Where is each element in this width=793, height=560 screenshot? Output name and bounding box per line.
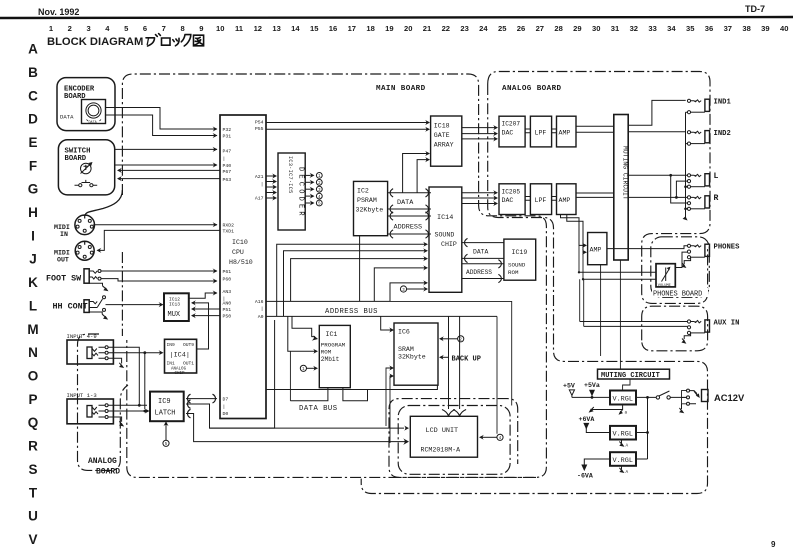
svg-text:IC18: IC18 bbox=[434, 123, 450, 130]
data bus IC9 to LCD rail bbox=[186, 409, 409, 445]
svg-text:|IC4|: |IC4| bbox=[170, 352, 190, 360]
wires AMP upper to muting bbox=[576, 126, 614, 132]
svg-text:P: P bbox=[28, 392, 37, 407]
wire MIDI IN to CPU RXD2 bbox=[93, 222, 217, 227]
mux IC12 IC13 bbox=[164, 293, 189, 321]
svg-text:S: S bbox=[28, 462, 37, 477]
wire data bus to IC18 a bbox=[403, 151, 430, 193]
svg-text:32Kbyte: 32Kbyte bbox=[398, 354, 426, 361]
svg-text:B: B bbox=[28, 65, 38, 80]
power switch bbox=[656, 391, 670, 399]
svg-text:8: 8 bbox=[180, 24, 184, 33]
rail1 extension to lcd bay bbox=[390, 301, 512, 405]
wire vrgl1 to power switch bbox=[636, 396, 656, 399]
circled 3 into IC14 bbox=[400, 286, 428, 293]
svg-text:|: | bbox=[261, 306, 264, 312]
HH CONT jack bbox=[53, 296, 106, 314]
svg-text:40: 40 bbox=[780, 24, 788, 33]
svg-text:DATA BUS: DATA BUS bbox=[299, 405, 338, 413]
address bus IC14-IC19 upper bbox=[462, 260, 504, 268]
header date bbox=[38, 7, 79, 17]
IC6 SRAM bbox=[394, 323, 438, 385]
address bus IC14-IC19 lower bbox=[462, 274, 504, 282]
svg-text:Q: Q bbox=[28, 415, 39, 430]
svg-text:MUTING CIRCUIT: MUTING CIRCUIT bbox=[601, 372, 660, 380]
address bus IC2 to IC14 upper bbox=[388, 212, 431, 220]
svg-text:A0: A0 bbox=[258, 314, 264, 320]
wires AMP lower to muting bbox=[576, 193, 614, 197]
INPUT 1-3 jack bbox=[67, 392, 114, 424]
data bus loop under CPU to IC9 bbox=[186, 320, 275, 428]
svg-text:34: 34 bbox=[667, 24, 676, 33]
wire INPUT1-3 tip to IC9 bbox=[108, 404, 147, 407]
svg-text:A17: A17 bbox=[255, 196, 264, 202]
DATA label IC14-IC19 bbox=[473, 249, 489, 256]
svg-text:23: 23 bbox=[460, 24, 468, 33]
wire INPUT4-9 ring to IC4 bbox=[108, 350, 163, 409]
svg-text:37: 37 bbox=[724, 24, 732, 33]
svg-text:+5Va: +5Va bbox=[584, 382, 600, 389]
INPUT 4-9 jack bbox=[67, 333, 114, 364]
svg-text:39: 39 bbox=[761, 24, 769, 33]
svg-text:30: 30 bbox=[592, 24, 600, 33]
svg-text:CPU: CPU bbox=[232, 249, 244, 256]
AUX IN jack bbox=[687, 319, 739, 334]
phones board outline bbox=[651, 237, 710, 299]
svg-text:|: | bbox=[223, 156, 226, 162]
LPF upper bbox=[530, 116, 551, 147]
svg-text:ANALOG: ANALOG bbox=[88, 457, 117, 466]
svg-text:27: 27 bbox=[536, 24, 544, 33]
svg-text:IN9: IN9 bbox=[167, 342, 176, 348]
svg-text:DATA: DATA bbox=[60, 114, 74, 121]
data bus IC2 to IC14 upper bbox=[388, 189, 431, 197]
decoder IC3 IC7 IC5 bbox=[278, 153, 305, 230]
svg-text:A16: A16 bbox=[255, 299, 264, 305]
wire switch to CPU P40 bbox=[115, 162, 218, 167]
wires CPU A21-A17 to decoder bbox=[266, 173, 277, 200]
svg-text:R: R bbox=[714, 194, 719, 203]
svg-text:F: F bbox=[29, 158, 37, 173]
data bus label bbox=[299, 405, 338, 413]
svg-text:IND2: IND2 bbox=[714, 130, 731, 138]
main board lcd bay outline bbox=[389, 399, 536, 478]
svg-text:VOLUME: VOLUME bbox=[658, 284, 671, 288]
svg-text:36: 36 bbox=[705, 24, 713, 33]
svg-text:RXD2: RXD2 bbox=[223, 222, 235, 228]
svg-text:V.RGL: V.RGL bbox=[613, 431, 633, 439]
wires AUX IN to main board bbox=[580, 322, 688, 327]
svg-text:V: V bbox=[28, 532, 37, 547]
svg-text:MIDI: MIDI bbox=[54, 224, 70, 231]
svg-text:L: L bbox=[714, 172, 719, 181]
IC14 sound chip bbox=[429, 187, 462, 292]
svg-text:a: a bbox=[625, 411, 628, 416]
svg-text:A: A bbox=[626, 444, 629, 449]
svg-text:P67: P67 bbox=[223, 169, 232, 175]
LPF lower bbox=[530, 184, 551, 215]
svg-text:D7: D7 bbox=[223, 397, 229, 403]
svg-text:AMP: AMP bbox=[559, 130, 571, 137]
svg-text:|: | bbox=[261, 182, 264, 188]
wire INPUT4-9 tip to vertical bus bbox=[108, 347, 139, 404]
circled 5 into IC9 bbox=[163, 421, 169, 447]
svg-text:AC12V: AC12V bbox=[714, 392, 745, 403]
circled 4 wire into LCD bbox=[479, 316, 503, 441]
ADDRESS label IC2-IC14 bbox=[394, 223, 423, 231]
svg-text:A21: A21 bbox=[255, 174, 264, 180]
svg-text:U: U bbox=[28, 509, 38, 524]
svg-text:OUT: OUT bbox=[57, 257, 69, 264]
svg-text:29: 29 bbox=[573, 24, 581, 33]
wire vrgl3 input bbox=[636, 458, 648, 460]
encoder DATA knob bbox=[60, 100, 106, 126]
AUX IN ground bbox=[681, 333, 690, 344]
volume pot box bbox=[656, 264, 675, 288]
svg-text:LPF: LPF bbox=[535, 130, 547, 137]
IC4 analog chip bbox=[165, 339, 197, 376]
wire CPU TXD1 to MIDI OUT bbox=[97, 230, 221, 253]
header model TD-7 bbox=[745, 4, 765, 14]
svg-text:P31: P31 bbox=[223, 134, 232, 140]
MIDI IN connector bbox=[54, 215, 94, 238]
svg-text:CHIP: CHIP bbox=[175, 372, 186, 376]
main board boundary curve near MIDI bbox=[85, 190, 122, 216]
svg-text:P32: P32 bbox=[223, 127, 232, 133]
muting circuit label box bbox=[598, 369, 670, 380]
wire CPU P50 to MUX bbox=[191, 313, 220, 318]
svg-text:CHIP: CHIP bbox=[441, 241, 457, 248]
svg-text:OUT1: OUT1 bbox=[183, 361, 194, 367]
svg-text:PHONES BOARD: PHONES BOARD bbox=[653, 291, 702, 299]
svg-text:V.RGL: V.RGL bbox=[613, 457, 633, 465]
analog board (upper) outline left edge and power bay bbox=[361, 84, 707, 494]
svg-text:D: D bbox=[28, 112, 38, 127]
+5Va supply bbox=[584, 382, 600, 399]
svg-text:20: 20 bbox=[404, 24, 412, 33]
svg-text:IC10: IC10 bbox=[232, 239, 248, 246]
wires to volume box bbox=[579, 272, 656, 279]
svg-text:5: 5 bbox=[124, 24, 129, 33]
svg-text:PHONES: PHONES bbox=[714, 244, 741, 252]
analog board lower label bbox=[88, 457, 120, 477]
svg-text:ADDRESS: ADDRESS bbox=[394, 223, 423, 231]
AMP lower bbox=[557, 184, 577, 215]
svg-text:P50: P50 bbox=[223, 314, 232, 320]
svg-text:1: 1 bbox=[49, 24, 54, 33]
svg-text:R: R bbox=[28, 439, 38, 454]
address rail A16 bbox=[266, 300, 390, 302]
svg-text:ROM: ROM bbox=[508, 269, 519, 276]
svg-text:IN: IN bbox=[60, 231, 68, 238]
svg-text:I: I bbox=[31, 228, 35, 243]
wire rail to IC14 pin5 bbox=[390, 280, 428, 301]
svg-text:DAC: DAC bbox=[502, 130, 514, 137]
title BLOCK DIAGRAM bbox=[47, 36, 150, 48]
svg-text:IC1: IC1 bbox=[326, 331, 338, 338]
svg-text:GATE: GATE bbox=[434, 132, 450, 139]
title katakana burokku-zu bbox=[146, 34, 204, 46]
svg-text:24: 24 bbox=[479, 24, 488, 33]
wire encoder to CPU P32 bbox=[106, 108, 218, 132]
vrgl3 ground A bbox=[619, 466, 628, 475]
switch board pushbutton bbox=[75, 180, 98, 187]
svg-text:21: 21 bbox=[423, 24, 432, 33]
svg-text:MUX: MUX bbox=[168, 311, 181, 319]
svg-text:DATA: DATA bbox=[397, 199, 414, 207]
svg-text:M: M bbox=[27, 322, 38, 337]
svg-text:T: T bbox=[29, 485, 38, 500]
IC18 gate array bbox=[431, 116, 462, 166]
encoder board bbox=[57, 78, 115, 131]
wires IC205-LPF-AMP lower bbox=[525, 197, 556, 201]
cpu left pin labels bbox=[223, 127, 235, 417]
PHONES jack bbox=[687, 244, 740, 259]
+5V supply bbox=[563, 383, 575, 398]
IND2 jack bbox=[687, 130, 730, 145]
analog board label bbox=[502, 85, 562, 93]
svg-text:9: 9 bbox=[771, 540, 776, 549]
svg-text:AUX IN: AUX IN bbox=[714, 319, 740, 327]
svg-text:10: 10 bbox=[216, 24, 224, 33]
svg-text:TXD1: TXD1 bbox=[223, 228, 235, 234]
svg-text:LPF: LPF bbox=[535, 197, 547, 204]
svg-text:6: 6 bbox=[143, 24, 147, 33]
wire muting to IND1 bbox=[628, 100, 686, 125]
svg-text:+5V: +5V bbox=[563, 383, 575, 390]
svg-text:IC6: IC6 bbox=[398, 329, 410, 336]
jack sleeve ground chain bbox=[683, 112, 688, 220]
svg-text:IC13: IC13 bbox=[169, 301, 180, 307]
svg-text:9: 9 bbox=[199, 24, 203, 33]
svg-text:BLOCK DIAGRAM /: BLOCK DIAGRAM / bbox=[47, 36, 150, 48]
wire IC4 OUT9 to MUX bbox=[191, 300, 209, 349]
svg-text:AMP: AMP bbox=[559, 197, 571, 204]
svg-text:LCD UNIT: LCD UNIT bbox=[426, 427, 459, 435]
svg-text:7: 7 bbox=[162, 24, 166, 33]
AMP upper bbox=[557, 116, 577, 147]
wire MUX to CPU AN3-AN0 bbox=[189, 290, 218, 298]
wire data bus to IC18 b bbox=[417, 157, 430, 193]
data rail arrows into LCD bbox=[210, 426, 410, 431]
svg-text:2Mbit: 2Mbit bbox=[321, 356, 340, 363]
data bus IC9 to CPU D7-D0 bbox=[186, 394, 217, 403]
analog board outline top and jacks bay bbox=[488, 72, 710, 304]
LCD unit bbox=[410, 416, 477, 457]
header rule bbox=[0, 17, 793, 18]
wire rail to IC14 pin4 bbox=[374, 265, 428, 301]
svg-text:V.RGL: V.RGL bbox=[613, 396, 633, 404]
IC9 latch bbox=[150, 392, 184, 422]
svg-text:32: 32 bbox=[630, 24, 638, 33]
svg-text:28: 28 bbox=[554, 24, 562, 33]
svg-text:|: | bbox=[223, 404, 226, 410]
svg-text:BOARD: BOARD bbox=[96, 468, 120, 477]
svg-text:O: O bbox=[28, 368, 39, 383]
switch board bbox=[58, 140, 114, 195]
svg-text:MUTING CIRCUIT: MUTING CIRCUIT bbox=[622, 146, 629, 200]
svg-text:IN1: IN1 bbox=[167, 361, 176, 367]
svg-text:AN0: AN0 bbox=[223, 300, 232, 306]
svg-text:RCM2018M-A: RCM2018M-A bbox=[421, 447, 461, 454]
svg-text:22: 22 bbox=[442, 24, 450, 33]
svg-text:BOARD: BOARD bbox=[65, 155, 87, 163]
svg-text:26: 26 bbox=[517, 24, 525, 33]
address bus IC2 to IC14 lower bbox=[388, 230, 431, 238]
wire FOOT SW to CPU P61 bbox=[101, 268, 218, 273]
wire muting to IND2 bbox=[628, 131, 686, 133]
wire vrgl2 input bbox=[636, 432, 648, 434]
wire volume to phones ring bbox=[675, 252, 687, 267]
IC2 PSRAM bbox=[354, 181, 388, 235]
svg-text:Nov. 1992: Nov. 1992 bbox=[38, 7, 79, 17]
wire address bus to IC1 upper bbox=[292, 316, 318, 340]
svg-text:IC9: IC9 bbox=[158, 398, 171, 406]
svg-text:IC207: IC207 bbox=[502, 121, 521, 128]
wire CPU P54 to IC18 bbox=[266, 120, 430, 125]
wires IC18 to IC207 bbox=[462, 125, 498, 141]
wires amp lower to phones amp bbox=[561, 215, 588, 255]
svg-text:ADDRESS: ADDRESS bbox=[466, 269, 492, 276]
svg-text:FOOT SW: FOOT SW bbox=[46, 274, 82, 284]
regulator V.RGL 3 bbox=[610, 452, 636, 466]
svg-text:AN3: AN3 bbox=[223, 289, 232, 295]
svg-text:25: 25 bbox=[498, 24, 507, 33]
svg-text:ADDRESS BUS: ADDRESS BUS bbox=[325, 308, 378, 316]
svg-text:INPUT 4-9: INPUT 4-9 bbox=[67, 333, 97, 340]
+6VA supply bbox=[579, 416, 611, 433]
IC1 lower stub riser bbox=[289, 351, 291, 401]
wire muting control down bbox=[619, 260, 621, 369]
svg-text:INPUT 1-3: INPUT 1-3 bbox=[67, 392, 97, 399]
svg-text:N: N bbox=[28, 345, 38, 360]
page number bbox=[771, 540, 776, 549]
AC12V jack bbox=[682, 389, 745, 405]
main board outline bbox=[122, 74, 546, 477]
L jack bbox=[687, 172, 718, 188]
svg-text:32Kbyte: 32Kbyte bbox=[356, 207, 384, 214]
control rail CPU to IC6 bbox=[266, 385, 437, 389]
svg-text:IC14: IC14 bbox=[437, 214, 453, 222]
svg-text:38: 38 bbox=[742, 24, 750, 33]
DATA label IC2-IC14 bbox=[397, 199, 414, 207]
IC205 DAC bbox=[499, 184, 525, 215]
FOOT SW jack bbox=[46, 269, 103, 286]
switch board potentiometer bbox=[81, 162, 93, 174]
FOOT SW ground bbox=[103, 286, 109, 291]
svg-text:14: 14 bbox=[291, 24, 300, 33]
data bus IC14-IC19 upper bbox=[462, 238, 504, 246]
svg-text:DAC: DAC bbox=[502, 197, 514, 204]
svg-text:16: 16 bbox=[329, 24, 337, 33]
wire phones amp through muting to PHONES bbox=[607, 246, 687, 249]
ADDRESS label IC14-IC19 bbox=[466, 269, 492, 276]
BACK UP arrow into IC6 bbox=[439, 355, 481, 364]
lcd bus from address bus bbox=[442, 316, 466, 415]
wires data rails to IC6 bbox=[386, 365, 394, 443]
HH CONT ground bbox=[102, 314, 108, 319]
svg-text:PSRAM: PSRAM bbox=[357, 197, 377, 204]
svg-text:TD-7: TD-7 bbox=[745, 4, 765, 14]
wire switch to AC jack contacts bbox=[670, 396, 686, 398]
IC1 program rom bbox=[319, 325, 350, 387]
wires IC14 to IC205 bbox=[462, 190, 498, 206]
svg-text:SOUND: SOUND bbox=[508, 262, 526, 269]
svg-text:H: H bbox=[28, 205, 38, 220]
svg-text:ARRAY: ARRAY bbox=[434, 142, 454, 149]
AC jack ground bbox=[679, 404, 684, 413]
svg-text:J: J bbox=[29, 252, 37, 267]
cpu right pin labels bbox=[255, 120, 264, 321]
wire switch to CPU P47 bbox=[115, 147, 218, 152]
svg-text:18: 18 bbox=[366, 24, 374, 33]
data bus IC2 to IC14 lower bbox=[388, 205, 431, 213]
svg-text:DATA: DATA bbox=[473, 249, 489, 256]
svg-text:SOUND: SOUND bbox=[435, 232, 455, 239]
svg-text:H8/510: H8/510 bbox=[229, 259, 253, 266]
svg-text:D0: D0 bbox=[223, 411, 229, 417]
svg-text:P54: P54 bbox=[255, 120, 264, 126]
wires IC207-LPF-AMP upper bbox=[525, 129, 556, 133]
R jack bbox=[687, 194, 718, 210]
svg-text:DECODER: DECODER bbox=[297, 167, 305, 219]
phones amp bbox=[588, 233, 607, 265]
svg-text:IC3·IC7·IC5: IC3·IC7·IC5 bbox=[287, 156, 293, 194]
wire encoder to CPU P31 bbox=[106, 115, 218, 138]
svg-text:P40: P40 bbox=[223, 163, 232, 169]
svg-text:13: 13 bbox=[272, 24, 280, 33]
svg-text:17: 17 bbox=[348, 24, 356, 33]
INPUT 4-9 ground bbox=[108, 358, 124, 368]
svg-text:BACK UP: BACK UP bbox=[452, 355, 481, 363]
lcd display board outline bbox=[398, 406, 510, 475]
svg-text:P51: P51 bbox=[223, 307, 232, 313]
svg-text:C: C bbox=[28, 88, 38, 103]
svg-text:OUT9: OUT9 bbox=[183, 342, 194, 348]
svg-text:A: A bbox=[626, 470, 629, 475]
svg-text:LATCH: LATCH bbox=[155, 410, 176, 418]
wire HH CONT to MUX bbox=[106, 302, 164, 307]
svg-text:4: 4 bbox=[105, 24, 110, 33]
svg-text:ROM: ROM bbox=[321, 349, 332, 356]
vrgl1 ground a bbox=[589, 405, 628, 416]
analog board (lower-left) outline bbox=[78, 334, 129, 470]
svg-text:15: 15 bbox=[310, 24, 319, 33]
IC19 sound rom bbox=[504, 239, 536, 280]
wire phones amp power down bbox=[600, 265, 602, 356]
IC1 data stubs bbox=[290, 388, 367, 401]
-6VA supply bbox=[577, 459, 610, 480]
svg-text:P55: P55 bbox=[255, 126, 264, 132]
regulator V.RGL 2 bbox=[610, 426, 636, 440]
main board outline left segment bbox=[121, 252, 123, 336]
address rail A0 bbox=[266, 315, 497, 317]
wire CPU P55 to IC18 bbox=[266, 127, 430, 132]
svg-text:3: 3 bbox=[86, 24, 90, 33]
svg-text:MIDI: MIDI bbox=[54, 250, 70, 257]
svg-text:2: 2 bbox=[68, 24, 72, 33]
aux in bay outline bbox=[642, 306, 708, 351]
IND1 jack bbox=[687, 99, 731, 114]
svg-text:K: K bbox=[28, 275, 38, 290]
svg-text:IC2: IC2 bbox=[357, 188, 369, 195]
PHONES ground bbox=[681, 257, 690, 268]
wire FOOT SW to CPU P60 bbox=[101, 278, 218, 283]
ruler letters A-V bbox=[27, 42, 38, 547]
wire supplies to vrgl1 bbox=[572, 396, 610, 398]
svg-text:DATA: DATA bbox=[89, 121, 98, 125]
wire address bus to IC1 lower bbox=[288, 316, 318, 354]
